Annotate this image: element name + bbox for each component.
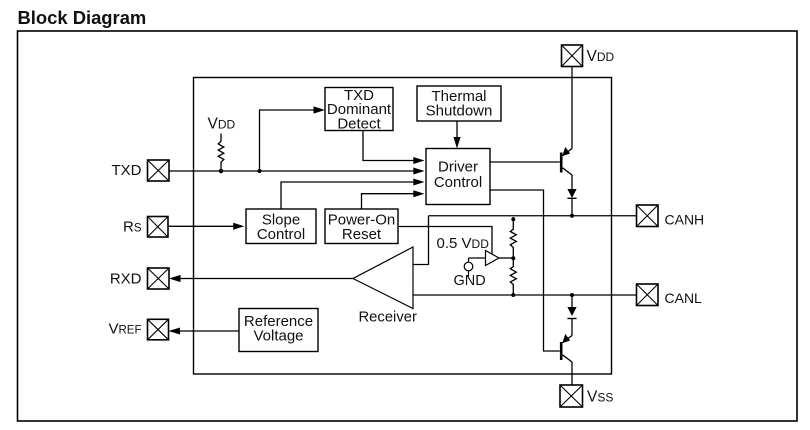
wire POR to reference buffer (398, 227, 492, 255)
svg-text:RXD: RXD (110, 270, 142, 287)
svg-text:GND: GND (454, 273, 486, 289)
wire D1 to CANH line (571, 198, 573, 215)
wire CANL to diode D2 (571, 295, 573, 307)
wire TXD to driver control (169, 170, 415, 172)
wire buffer output (499, 257, 513, 259)
diode D2 (567, 307, 576, 319)
wire driver control to Q1 base (490, 161, 560, 163)
svg-text:Receiver: Receiver (359, 309, 417, 325)
block TXD Dominant Detect (325, 87, 393, 133)
svg-text:Shutdown: Shutdown (426, 102, 493, 119)
arrow into TXD dominant detect (314, 106, 326, 113)
pin VREF (108, 319, 168, 340)
arrow into driver control 2 (413, 168, 424, 175)
wire driver control to Q2 base (490, 190, 560, 351)
wire Q1 collector to diode D1 (571, 175, 573, 189)
svg-text:Block Diagram: Block Diagram (18, 7, 147, 28)
svg-text:CANL: CANL (665, 290, 703, 306)
svg-text:VSS: VSS (587, 388, 613, 405)
svg-text:Control: Control (257, 226, 305, 243)
wire CANH to receiver input (413, 216, 429, 265)
op-amp Receiver (353, 247, 417, 325)
pin RXD (110, 268, 169, 289)
svg-text:Reset: Reset (342, 226, 382, 243)
wire buffer input (469, 257, 486, 259)
arrow into slope control (233, 223, 244, 230)
block Reference Voltage (239, 309, 318, 352)
block Driver Control (426, 149, 490, 205)
wire CANL line (413, 294, 637, 296)
node divider top (511, 217, 515, 221)
svg-text:0.5 VDD: 0.5 VDD (437, 235, 490, 252)
node divider mid (511, 256, 515, 260)
node D1-CANH (570, 214, 574, 218)
pin VSS bottom (560, 385, 613, 407)
pin Rs (123, 217, 168, 238)
resistor R2 (510, 217, 516, 258)
wire Rs to slope control (168, 225, 234, 227)
pin CANH (637, 205, 705, 227)
arrow into driver control 1 (413, 157, 424, 164)
svg-text:VDD: VDD (208, 116, 236, 133)
wire thermal shutdown to driver control (456, 121, 458, 138)
node divider bottom (511, 293, 515, 297)
wire D2 to Q2 emitter (571, 319, 573, 336)
chip boundary (194, 78, 612, 375)
wire Q2 collector to VSS (571, 362, 573, 385)
pin VDD top (562, 45, 615, 67)
wire CANH line (429, 215, 637, 217)
block Thermal Shutdown (417, 86, 501, 121)
wire VDD stub (220, 134, 222, 142)
resistor R1 pullup (218, 141, 224, 171)
pin CANL (637, 284, 703, 306)
transistor Q2 (PNP low side) (561, 334, 572, 362)
op-amp reference buffer 0.5 VDD (486, 251, 500, 266)
block Power-On Reset (325, 209, 398, 244)
wire receiver to RXD (180, 278, 354, 280)
svg-text:Voltage: Voltage (253, 327, 303, 344)
wire VDD to Q1 emitter (571, 67, 573, 149)
node TXD branch (258, 169, 262, 173)
arrow into VREF (169, 328, 181, 335)
voltage source circle (464, 258, 473, 277)
svg-text:Driver: Driver (438, 159, 478, 176)
arrow into driver control top (453, 137, 460, 149)
wire slope control to driver control (281, 182, 415, 210)
arrow into RXD (169, 275, 181, 282)
arrow into driver control 4 (413, 190, 424, 197)
diode D1 (567, 189, 576, 198)
pin TXD (112, 160, 170, 181)
svg-text:Detect: Detect (337, 115, 381, 132)
transistor Q1 (PNP high side) (561, 147, 572, 175)
svg-text:Control: Control (434, 174, 482, 191)
wire reference voltage to VREF (179, 330, 239, 332)
arrow into driver control 3 (413, 179, 424, 186)
svg-text:CANH: CANH (665, 211, 705, 227)
wire TXD DD to driver control (363, 131, 415, 161)
wire power-on reset to driver control (362, 194, 415, 210)
node D2-CANL (570, 293, 574, 297)
wire TXD dominant detect branch (260, 110, 315, 171)
block Slope Control (246, 209, 316, 244)
svg-text:VDD: VDD (587, 48, 615, 65)
resistor R3 (510, 258, 516, 295)
svg-text:TXD: TXD (112, 162, 142, 179)
node TXD-R1 (219, 169, 224, 174)
